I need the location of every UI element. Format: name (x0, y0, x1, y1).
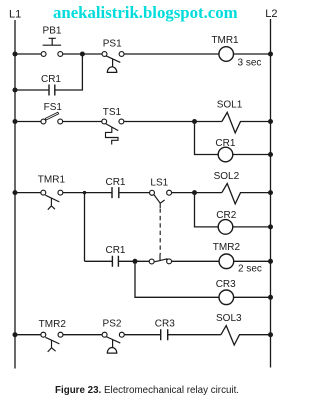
svg-text:CR3: CR3 (216, 279, 236, 290)
svg-text:CR1: CR1 (105, 177, 125, 188)
svg-text:FS1: FS1 (44, 102, 63, 113)
svg-text:PS2: PS2 (103, 319, 122, 330)
svg-text:CR1: CR1 (105, 245, 125, 256)
svg-text:anekalistrik.blogspot.com: anekalistrik.blogspot.com (53, 3, 238, 22)
svg-text:2 sec: 2 sec (238, 264, 262, 275)
svg-text:SOL1: SOL1 (217, 100, 243, 111)
svg-text:TS1: TS1 (103, 107, 122, 118)
svg-text:3 sec: 3 sec (238, 58, 262, 69)
svg-text:SOL2: SOL2 (214, 171, 240, 182)
svg-text:CR2: CR2 (216, 210, 236, 221)
svg-text:PB1: PB1 (43, 26, 62, 37)
svg-text:TMR2: TMR2 (213, 242, 241, 253)
svg-text:L2: L2 (265, 8, 277, 20)
svg-text:PS1: PS1 (103, 38, 122, 49)
svg-text:TMR1: TMR1 (38, 174, 66, 185)
svg-text:TMR2: TMR2 (39, 319, 67, 330)
svg-text:CR3: CR3 (155, 319, 175, 330)
svg-text:L1: L1 (9, 8, 21, 20)
svg-text:SOL3: SOL3 (216, 313, 242, 324)
svg-text:CR1: CR1 (215, 138, 235, 149)
svg-text:Figure 23. Electromechanical r: Figure 23. Electromechanical relay circu… (55, 385, 239, 396)
svg-text:TMR1: TMR1 (211, 35, 239, 46)
svg-text:LS1: LS1 (150, 177, 168, 188)
svg-text:CR1: CR1 (41, 74, 61, 85)
